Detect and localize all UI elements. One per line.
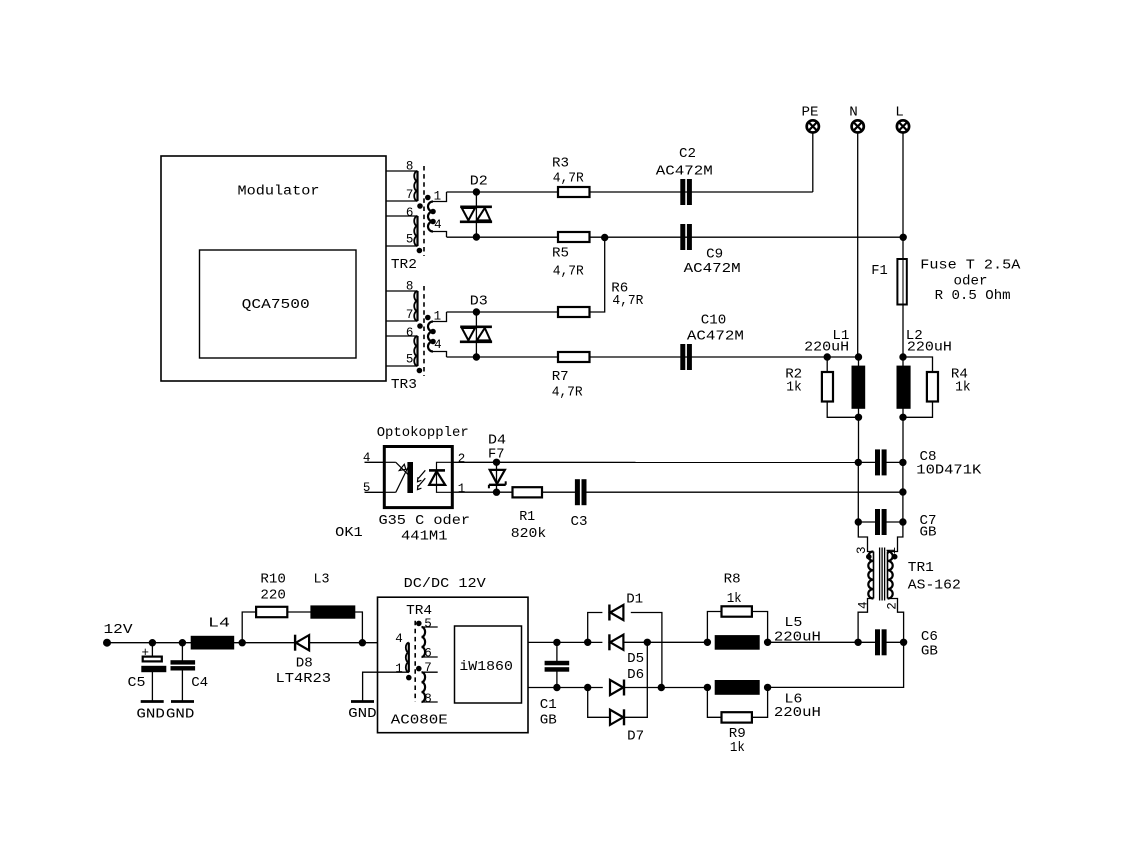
wire L column to fuse (902, 132, 904, 259)
wire 12V rail to L4 (107, 642, 191, 644)
svg-text:D5: D5 (627, 651, 644, 667)
block DC/DC 12V box (378, 597, 529, 733)
svg-text:N: N (849, 104, 858, 120)
capacitor C2 (681, 180, 685, 205)
TR4 pin 7 stub (422, 671, 438, 673)
svg-text:GND: GND (348, 706, 377, 722)
transformer TR3 polarity dots (418, 324, 423, 329)
svg-text:GND: GND (166, 707, 195, 723)
svg-text:1: 1 (395, 662, 403, 676)
junction C4 branch (179, 640, 185, 646)
junction D5 right (644, 639, 650, 645)
svg-text:C5: C5 (128, 675, 146, 691)
wire DC/DC output bottom row (528, 687, 603, 689)
OK1 pin 4 stub (365, 461, 385, 463)
svg-text:4: 4 (395, 632, 403, 646)
ground GND at C5 (141, 700, 164, 703)
svg-text:7: 7 (406, 188, 414, 202)
transformer TR3 pin 1 wire jog (433, 312, 447, 322)
svg-text:C3: C3 (571, 514, 588, 530)
junction C6 right (900, 639, 906, 645)
svg-text:G35 C oder: G35 C oder (379, 513, 471, 529)
svg-text:220: 220 (260, 587, 286, 603)
svg-text:R3: R3 (552, 156, 569, 172)
svg-text:C4: C4 (191, 675, 208, 691)
wire L6 row to C6 right column (768, 642, 904, 687)
svg-text:2: 2 (458, 452, 466, 466)
wire row D (TR3.4 to L1) (447, 356, 859, 358)
svg-text:Modulator: Modulator (238, 183, 320, 199)
wire row F (OK1.1 to D4) (452, 491, 512, 493)
junction R8 left (704, 639, 710, 645)
transformer TR3 pin 6 wire (386, 335, 418, 337)
svg-text:C10: C10 (701, 312, 727, 328)
terminal PE (807, 120, 819, 132)
svg-text:7: 7 (424, 661, 432, 675)
svg-text:7: 7 (406, 308, 414, 322)
capacitor C3 (575, 480, 579, 505)
terminal N (852, 120, 864, 132)
svg-text:1k: 1k (786, 379, 802, 395)
ground GND at C4 (171, 700, 194, 703)
diode D8 (294, 635, 296, 651)
svg-text:AC472M: AC472M (687, 328, 744, 344)
transformer TR3 pin 5 wire (386, 365, 418, 367)
junction D1 right bottom (658, 684, 664, 690)
svg-text:D8: D8 (296, 656, 313, 672)
wire TR4 pin 1 to GND (363, 672, 409, 701)
svg-text:iW1860: iW1860 (459, 659, 513, 675)
resistor R6 (558, 307, 590, 317)
svg-text:F1: F1 (871, 263, 888, 279)
wire row C (TR3.1 to R6) (447, 311, 559, 313)
diode D4 (zener) (496, 462, 498, 492)
resistor R7 (558, 352, 590, 362)
block Modulator box (161, 156, 386, 381)
svg-text:4,7R: 4,7R (552, 384, 583, 400)
svg-text:R10: R10 (260, 571, 286, 587)
transformer TR2 pin 4 wire jog (433, 232, 447, 238)
svg-text:C9: C9 (706, 246, 723, 262)
svg-text:220uH: 220uH (907, 340, 952, 356)
capacitor C6 (876, 630, 880, 655)
resistor R3 (558, 187, 590, 197)
svg-text:3: 3 (855, 546, 869, 554)
svg-text:AC472M: AC472M (684, 261, 741, 277)
capacitor C8 (876, 450, 880, 475)
junction C1 bottom (554, 684, 560, 690)
transformer TR3 core (423, 286, 425, 376)
transformer TR2 pin 5 wire (386, 245, 418, 247)
transformer TR2 pin 8 wire (386, 170, 418, 172)
svg-text:8: 8 (406, 279, 414, 293)
svg-text:D3: D3 (470, 294, 488, 310)
capacitor C5 (polarized) (151, 643, 153, 657)
wire R6 branch (590, 238, 605, 313)
diode D6 (623, 680, 625, 696)
svg-text:AS-162: AS-162 (908, 577, 961, 593)
fuse F1 (897, 259, 906, 305)
svg-text:8: 8 (406, 159, 414, 173)
capacitor C7 (876, 510, 880, 535)
junction C1 top (554, 639, 560, 645)
wire L1 bottom to C8 (858, 408, 860, 462)
transformer TR3 pin 7 wire (386, 320, 418, 322)
junction L1 bottom (855, 414, 861, 420)
resistor R5 (558, 232, 590, 242)
wire row B (TR2.4 to L column) (447, 236, 904, 238)
wire R10 to L3 (287, 611, 311, 613)
svg-text:D1: D1 (626, 592, 643, 608)
wire DC/DC output top row (528, 641, 602, 643)
svg-text:GB: GB (921, 644, 938, 660)
transformer TR2 core (423, 166, 425, 256)
junction R8 right (764, 639, 770, 645)
wire R1 to C3 (542, 491, 575, 493)
svg-text:820k: 820k (511, 526, 547, 542)
svg-text:L3: L3 (314, 571, 330, 587)
OK1 pin 5 stub (365, 491, 385, 493)
resistor R4 (903, 357, 933, 372)
svg-text:Fuse T 2.5A: Fuse T 2.5A (920, 258, 1021, 274)
svg-text:4,7R: 4,7R (553, 264, 584, 280)
wire N column C8 to C7 (857, 462, 859, 522)
svg-text:TR1: TR1 (908, 560, 934, 576)
junction D2 top (473, 189, 479, 195)
svg-text:C1: C1 (540, 697, 557, 713)
transformer TR2 secondary winding (428, 202, 433, 232)
svg-text:Optokoppler: Optokoppler (377, 425, 469, 441)
svg-text:DC/DC 12V: DC/DC 12V (404, 576, 487, 592)
capacitor C10 (681, 345, 685, 370)
svg-text:L4: L4 (208, 616, 230, 632)
svg-text:12V: 12V (104, 622, 134, 638)
svg-text:QCA7500: QCA7500 (242, 297, 310, 313)
svg-text:441M1: 441M1 (401, 529, 448, 545)
resistor R9 branch (707, 687, 721, 717)
inductor L5 (715, 636, 759, 650)
svg-text:5: 5 (406, 233, 414, 247)
wire L3 down to main rail (355, 612, 363, 643)
svg-text:LT4R23: LT4R23 (276, 671, 332, 687)
svg-text:GND: GND (136, 707, 165, 723)
OK1 photodiode (437, 462, 453, 492)
suppressor D2 (460, 206, 492, 209)
junction C5 branch (149, 640, 155, 646)
svg-text:AC472M: AC472M (656, 164, 713, 180)
OK1 LED element (384, 461, 396, 463)
junction C8 right (900, 459, 906, 465)
inductor L2 (897, 366, 910, 408)
wire PE column (812, 132, 814, 192)
svg-text:1k: 1k (955, 379, 971, 395)
junction D3 bottom (473, 354, 479, 360)
wire row E (OK1.2 to C8 left) (452, 461, 858, 463)
wire D3 vertical (475, 312, 477, 357)
transformer TR2 primary windings (416, 171, 418, 201)
svg-text:6: 6 (424, 647, 432, 661)
junction L2 top (900, 354, 906, 360)
wire L column C8 to C7 (902, 462, 904, 522)
TR4 polarity dots (417, 621, 422, 626)
transformer TR3 secondary winding (428, 322, 433, 352)
svg-text:220uH: 220uH (774, 630, 821, 646)
junction L1 top (855, 354, 861, 360)
diode D7 branch (588, 688, 610, 718)
junction L3/D8 node (359, 640, 365, 646)
resistor R10 (256, 607, 287, 617)
svg-text:GB: GB (540, 712, 557, 728)
svg-text:C2: C2 (679, 146, 696, 162)
wire D2 vertical (475, 192, 477, 237)
junction R9 right (764, 684, 770, 690)
svg-text:PE: PE (802, 104, 819, 120)
TR1 polarity dots (867, 554, 872, 559)
optocoupler OK1 box (384, 447, 452, 508)
svg-text:4: 4 (434, 338, 442, 352)
wire N column upper (857, 132, 859, 357)
wire L2 bottom to C8 (902, 408, 904, 462)
node 12V terminal (104, 639, 111, 646)
svg-text:R7: R7 (552, 369, 569, 385)
junction row B at L column (900, 234, 906, 240)
svg-text:220uH: 220uH (774, 705, 821, 721)
svg-text:10D471K: 10D471K (916, 463, 982, 479)
svg-text:D2: D2 (470, 174, 488, 190)
junction D2 bottom (473, 234, 479, 240)
svg-text:R5: R5 (552, 246, 569, 262)
resistor R8 branch (707, 612, 721, 643)
transformer TR2 pin 1 wire jog (433, 192, 447, 202)
svg-text:TR2: TR2 (391, 257, 417, 273)
svg-text:R 0.5 Ohm: R 0.5 Ohm (935, 288, 1011, 304)
inductor L3 (311, 606, 355, 618)
junction C6 left (855, 639, 861, 645)
svg-text:1k: 1k (727, 591, 742, 607)
wire row A (TR2.1 to PE) (447, 191, 813, 193)
resistor R1 (513, 487, 543, 497)
junction D4 top (493, 459, 499, 465)
transformer TR2 pin 6 wire (386, 215, 418, 217)
capacitor C1 (556, 642, 558, 661)
svg-text:6: 6 (406, 206, 414, 220)
svg-text:1k: 1k (730, 740, 745, 756)
svg-text:C6: C6 (921, 629, 938, 645)
junction D1 left (585, 639, 591, 645)
chip iW1860 box (455, 626, 522, 703)
inductor L6 (715, 681, 759, 695)
diode D5 (608, 634, 610, 650)
transformer TR3 pin 4 wire jog (433, 352, 447, 358)
chip QCA7500 box (200, 250, 357, 358)
junction R10 branch left (239, 640, 245, 646)
svg-text:4: 4 (856, 601, 870, 609)
svg-text:R1: R1 (519, 509, 535, 525)
capacitor C9 (681, 225, 685, 250)
TR4 pin 5 stub (422, 626, 438, 628)
transformer TR3 pin 8 wire (386, 290, 418, 292)
OK1 light arrows (418, 470, 425, 478)
transformer TR2 pin 7 wire (386, 200, 418, 202)
transformer TR3 primary windings (416, 291, 418, 321)
svg-text:5: 5 (424, 617, 432, 631)
svg-text:TR3: TR3 (391, 377, 417, 393)
resistor R2 (826, 357, 828, 372)
capacitor C4 (181, 643, 183, 661)
inductor L4 (191, 636, 234, 649)
junction D3 top (473, 309, 479, 315)
junction D4 bottom (493, 489, 499, 495)
TR4 pin 6 stub (422, 656, 438, 658)
svg-text:220uH: 220uH (804, 340, 849, 356)
wire D8 to TR4 pin 4 (309, 642, 409, 644)
svg-text:1: 1 (458, 482, 466, 496)
svg-text:D7: D7 (627, 728, 644, 744)
junction row 492 at L column (900, 489, 906, 495)
wire L5 row to C6 (768, 641, 859, 643)
svg-text:5: 5 (363, 481, 371, 495)
suppressor D3 (460, 325, 492, 328)
junction R2 top node (824, 354, 830, 360)
terminal L (897, 120, 909, 132)
junction C7 right (900, 519, 906, 525)
TR4 pin 8 stub (422, 701, 438, 703)
wire R10 branch up-left (242, 612, 256, 643)
inductor L1 (852, 366, 865, 408)
junction R9 left (704, 684, 710, 690)
junction D6 left (585, 684, 591, 690)
junction C7 left (855, 519, 861, 525)
svg-text:AC080E: AC080E (391, 712, 448, 728)
wire L4 to D8 node (234, 642, 295, 644)
wire D5 row (623, 641, 707, 643)
diode D1 branch (588, 613, 603, 643)
svg-text:L5: L5 (784, 615, 802, 631)
junction C8 left (855, 459, 861, 465)
wire D6 row (624, 687, 707, 689)
transformer TR1 (858, 522, 873, 552)
svg-text:5: 5 (406, 353, 414, 367)
ground GND at TR4 (351, 700, 374, 703)
junction L2 bottom (900, 414, 906, 420)
svg-text:4,7R: 4,7R (612, 293, 643, 309)
svg-text:D6: D6 (627, 667, 644, 683)
svg-text:6: 6 (406, 326, 414, 340)
svg-text:4: 4 (363, 451, 371, 465)
svg-text:GB: GB (920, 525, 937, 541)
svg-text:8: 8 (424, 692, 432, 706)
svg-text:R8: R8 (724, 571, 741, 587)
svg-text:2: 2 (885, 602, 899, 610)
svg-text:4: 4 (434, 218, 442, 232)
svg-text:4,7R: 4,7R (553, 171, 584, 187)
svg-text:1: 1 (885, 547, 899, 555)
svg-text:OK1: OK1 (335, 525, 363, 541)
wire C3 to L column (586, 491, 903, 493)
svg-text:L: L (895, 104, 904, 120)
wire fuse to L2 (902, 305, 904, 358)
transformer TR2 polarity dots (418, 204, 423, 209)
junction R6 top node (602, 234, 608, 240)
